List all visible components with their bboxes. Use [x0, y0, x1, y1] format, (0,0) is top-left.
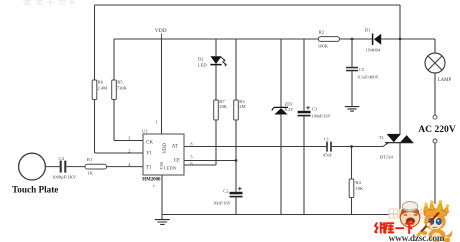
wire R4 branch — [351, 147, 353, 215]
svg-text:www.dzsc.com: www.dzsc.com — [389, 234, 445, 242]
svg-text:AC 220V: AC 220V — [418, 124, 456, 135]
resistor R3 — [234, 100, 239, 120]
wire terminal to bottom — [434, 143, 436, 215]
wire mains column — [399, 5, 401, 215]
capacitor C4 — [60, 161, 62, 173]
svg-text:CE: CE — [174, 159, 180, 164]
svg-text:Touch Plate: Touch Plate — [12, 184, 58, 194]
svg-text:CK: CK — [146, 140, 153, 145]
svg-text:VDD: VDD — [155, 28, 167, 34]
wire zener branch — [280, 39, 282, 215]
wire IC vss ground — [161, 175, 163, 219]
capacitor C2 electrolytic — [230, 192, 243, 195]
wire C5 branch — [351, 39, 353, 106]
capacitor C5 — [346, 67, 358, 69]
svg-text:HM2000: HM2000 — [142, 178, 161, 183]
wire R5 branch — [114, 39, 143, 141]
svg-text:C1: C1 — [324, 137, 329, 142]
watermark halo — [373, 204, 455, 242]
ground below IC — [155, 220, 170, 225]
wire IC pin5 — [184, 160, 236, 162]
svg-text:D1: D1 — [365, 27, 371, 32]
ground below C5 — [345, 107, 359, 112]
svg-text:8.2V: 8.2V — [285, 107, 295, 112]
svg-text:R4: R4 — [355, 180, 361, 185]
svg-text:0.1uF/400V: 0.1uF/400V — [358, 75, 380, 80]
svg-text:1000pF/1KV: 1000pF/1KV — [52, 174, 77, 179]
watermark monkey mascot — [417, 200, 452, 242]
svg-text:R5: R5 — [117, 80, 123, 85]
resistor R1 — [85, 164, 107, 169]
svg-text:47nF: 47nF — [323, 153, 333, 158]
svg-text:8: 8 — [190, 141, 192, 146]
svg-text:T1: T1 — [146, 166, 152, 171]
faint header text — [23, 0, 75, 5]
svg-text:U1: U1 — [142, 129, 148, 134]
watermark mascot head — [400, 202, 420, 228]
svg-text:ZD1: ZD1 — [285, 101, 294, 106]
svg-text:100nF/16V: 100nF/16V — [312, 114, 331, 119]
wire touch plate line — [45, 166, 143, 168]
svg-text:1: 1 — [156, 119, 158, 124]
svg-text:FI: FI — [147, 151, 152, 156]
diode D1 — [372, 34, 374, 46]
resistor R4 — [349, 179, 354, 198]
junction dots — [351, 38, 354, 41]
resistor R6 — [92, 80, 97, 100]
svg-text:2M: 2M — [239, 104, 245, 109]
watermark faint orange characters — [389, 209, 439, 218]
wire VDD rail — [114, 39, 435, 53]
svg-text:LED: LED — [198, 62, 208, 67]
svg-text:C3: C3 — [312, 106, 318, 111]
IC pin numbers — [128, 119, 193, 189]
svg-text:LEDN: LEDN — [164, 165, 177, 170]
touch plate — [19, 153, 46, 180]
svg-text:AT: AT — [172, 145, 178, 150]
resistor R5 — [112, 80, 117, 100]
resistor R7 — [214, 100, 219, 120]
watermark red text — [375, 222, 414, 234]
svg-text:730K: 730K — [117, 86, 128, 91]
wire lamp to terminal — [434, 73, 436, 115]
wire top rail — [95, 4, 401, 6]
svg-text:10nF/16V: 10nF/16V — [213, 201, 232, 206]
svg-text:20K: 20K — [219, 104, 228, 109]
op IC U1 box — [143, 134, 184, 175]
svg-text:10K: 10K — [355, 186, 364, 191]
LED D2 — [210, 56, 221, 64]
capacitor C1 — [326, 142, 328, 152]
AC terminal upper — [433, 115, 437, 119]
wire LED R7 branch — [184, 39, 216, 165]
svg-text:VDD: VDD — [163, 143, 168, 154]
svg-text:R6: R6 — [98, 80, 104, 85]
zener ZD1 — [272, 107, 288, 110]
wire bottom rail — [162, 214, 435, 216]
svg-text:1K: 1K — [88, 171, 94, 176]
svg-text:BT134: BT134 — [380, 155, 393, 160]
svg-text:1N4004: 1N4004 — [365, 47, 381, 52]
wire left column R6 branch — [95, 5, 144, 153]
wire C3 branch — [303, 39, 305, 215]
svg-text:3: 3 — [128, 135, 130, 140]
svg-text:D2: D2 — [198, 56, 204, 61]
AC terminal lower — [433, 139, 437, 143]
svg-text:R1: R1 — [87, 157, 93, 162]
svg-text:R2: R2 — [319, 29, 325, 34]
svg-text:2: 2 — [128, 149, 130, 154]
svg-text:LAMP: LAMP — [438, 78, 452, 83]
svg-text:C5: C5 — [359, 67, 365, 72]
svg-text:C2: C2 — [223, 188, 228, 193]
svg-text:C4: C4 — [59, 156, 65, 161]
wire VDD to IC — [161, 39, 163, 134]
capacitor C3 electrolytic — [298, 111, 311, 114]
svg-text:2.4M: 2.4M — [97, 86, 107, 91]
resistor R2 — [318, 37, 339, 42]
wire R3 C2 branch — [235, 39, 237, 215]
svg-text:5: 5 — [190, 155, 192, 160]
lamp — [425, 53, 445, 73]
svg-text:T1: T1 — [379, 135, 385, 140]
wire AT gate line — [184, 143, 389, 147]
svg-text:100K: 100K — [318, 44, 329, 49]
triac T1 — [387, 134, 400, 136]
svg-text:7: 7 — [153, 184, 156, 189]
